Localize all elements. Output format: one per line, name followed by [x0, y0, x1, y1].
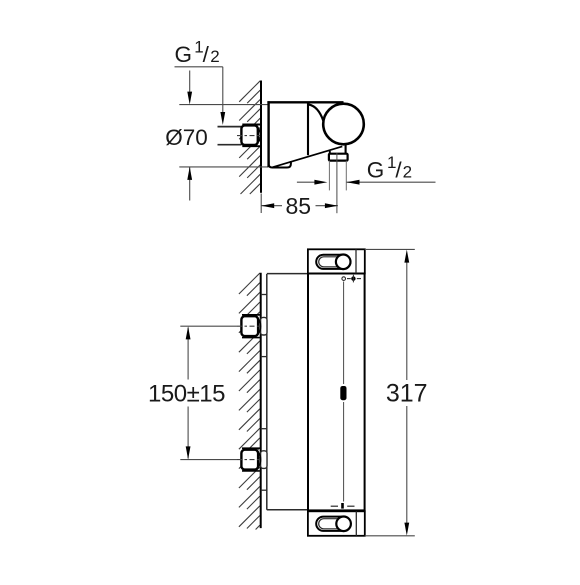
85 dim line left segment — [261, 205, 282, 207]
top plate knob circle — [336, 254, 351, 269]
top connector line — [267, 273, 308, 275]
svg-text:Ø70: Ø70 — [165, 125, 208, 150]
svg-text:/: / — [203, 42, 210, 67]
317 dim arrow down — [404, 523, 409, 536]
union nut (top view) — [241, 125, 257, 145]
svg-text:150±15: 150±15 — [148, 381, 225, 408]
nut centerline (top view) — [237, 135, 262, 137]
150 dim arrow down — [186, 446, 191, 459]
150 dim arrow up — [186, 326, 191, 339]
socket flange top (top view) — [242, 124, 260, 126]
bottom plate — [308, 511, 365, 536]
union pass-through 2 — [261, 451, 267, 469]
bottom connector line — [267, 509, 308, 511]
top symbol dash 1 — [347, 278, 351, 280]
socket flange top 1 — [242, 314, 260, 316]
317 dim line upper — [406, 254, 408, 381]
dim70 upper arrow — [187, 92, 192, 105]
nut chamfer arc 2 — [258, 452, 261, 467]
extension line bottom of escutcheon (y=167) — [179, 166, 268, 168]
85 dim extension at wall — [260, 194, 262, 214]
top screw symbol filled — [351, 276, 355, 280]
150 dim line lower — [187, 407, 189, 459]
union centerline 1 — [180, 325, 237, 327]
bottom mark dash right — [347, 505, 354, 507]
socket flange bottom 2 — [242, 470, 260, 472]
socket flange bottom 1 — [242, 337, 260, 339]
knob circle (handle, top view) — [323, 104, 364, 145]
nut chamfer arc (top view) — [257, 128, 260, 143]
317 top extension line — [365, 248, 415, 250]
317 bottom extension line — [365, 535, 415, 537]
top screw tick — [352, 275, 354, 283]
bracket tab 3 — [261, 428, 267, 430]
bracket tab 4 — [261, 489, 267, 491]
317 dim line lower — [406, 406, 408, 532]
wall line (top view) — [260, 81, 262, 193]
G1/2 outlet right leader — [347, 181, 436, 183]
bottom plate knob circle — [336, 517, 351, 532]
top plate inner line — [355, 249, 357, 273]
bottom plate slot (stadium) — [316, 517, 350, 531]
top plate slot inner — [319, 257, 348, 267]
85 dim left arrow — [261, 203, 274, 208]
middle logo mark — [340, 386, 346, 400]
leader vertical to thread stub — [222, 67, 224, 114]
escutcheon front edge — [307, 102, 309, 155]
G1/2 outlet left arrow — [314, 180, 327, 185]
extension line top of escutcheon (y=105) — [179, 104, 268, 106]
dim70 lower arrow — [187, 167, 192, 180]
holder-to-knob fillet — [309, 105, 324, 121]
wall line (bottom view) — [260, 273, 262, 528]
svg-text:2: 2 — [210, 47, 219, 66]
top symbol dash 2 — [357, 278, 361, 280]
wall hatching (top view) — [239, 81, 260, 194]
svg-text:G: G — [367, 157, 385, 182]
svg-text:85: 85 — [286, 193, 312, 219]
bottom mark tick — [341, 503, 344, 509]
wall hatching (bottom view) — [239, 273, 260, 530]
nut chamfer arc 1 — [258, 319, 261, 334]
holder underside slant — [272, 146, 343, 167]
dim70 lower tail — [189, 167, 191, 201]
bracket tab 1 — [261, 294, 267, 296]
outlet nut — [329, 154, 348, 161]
union pass-through 1 — [261, 317, 267, 335]
escutcheon left edge (at wall) — [267, 101, 269, 167]
bracket tab 2 — [261, 356, 267, 358]
holder top edge — [267, 101, 343, 103]
union nut 2 (bottom view) — [241, 450, 258, 470]
body centerline upper — [343, 282, 345, 385]
thread stub bottom line — [218, 144, 242, 146]
outlet pipe right edge — [345, 161, 347, 191]
svg-text:2: 2 — [403, 163, 412, 182]
317 dim arrow up — [404, 250, 409, 263]
back bracket edge — [266, 274, 268, 510]
bottom plate slot inner — [319, 519, 348, 529]
outlet neck right edge — [345, 144, 347, 155]
outlet neck left edge — [329, 151, 331, 154]
top plate — [308, 249, 365, 273]
thread stub top line — [218, 126, 242, 128]
socket flange bottom (top view) — [242, 145, 260, 147]
85 dim line right segment — [316, 205, 338, 207]
outlet pipe left edge — [328, 161, 330, 191]
G1/2 outlet left leader — [297, 181, 315, 183]
top plate slot (stadium) — [316, 255, 350, 269]
arrow to thread stub top — [220, 112, 225, 125]
socket flange top 2 — [242, 447, 260, 449]
union nut 1 (bottom view) — [241, 316, 258, 336]
outlet centerline — [336, 153, 338, 213]
85 dim right arrow — [325, 203, 338, 208]
dim70 upper tail — [189, 71, 191, 94]
150 dim line upper — [187, 328, 189, 380]
leader underline G1/2 top — [175, 66, 223, 68]
svg-text:/: / — [395, 157, 402, 182]
escutcheon bottom lip — [269, 161, 291, 168]
body centerline lower — [343, 402, 345, 502]
mixer body outline — [308, 274, 365, 511]
svg-text:317: 317 — [386, 380, 428, 408]
top screw symbol small circle — [342, 277, 346, 281]
bottom mark dash left — [331, 505, 338, 507]
G1/2 outlet right arrow — [347, 180, 360, 185]
bottom plate inner line — [355, 511, 357, 536]
svg-text:G: G — [175, 42, 193, 67]
union centerline 2 — [180, 459, 237, 461]
